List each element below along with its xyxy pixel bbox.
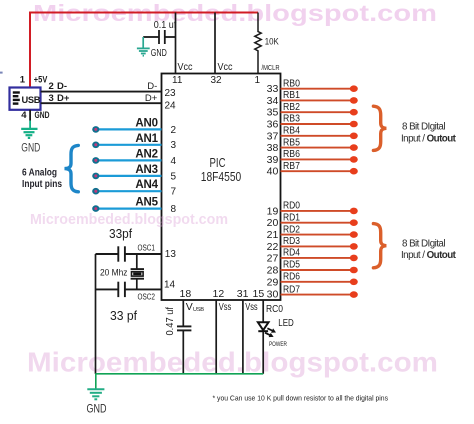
- svg-text:Vss: Vss: [219, 301, 232, 313]
- node RD2: [350, 231, 358, 238]
- ground for C1: [142, 37, 144, 48]
- svg-text:34: 34: [267, 95, 279, 107]
- svg-text:RB0: RB0: [283, 78, 300, 89]
- svg-text:2: 2: [171, 125, 177, 136]
- wire AN3: [96, 175, 162, 177]
- svg-text:Input pins: Input pins: [22, 179, 62, 190]
- wire D-: [41, 91, 162, 93]
- wire RD4: [281, 257, 354, 259]
- resistor R1 10K: [255, 13, 261, 74]
- node AN2: [92, 157, 99, 164]
- wire RB3: [281, 123, 354, 125]
- wire RD7: [281, 294, 354, 296]
- svg-text:13: 13: [165, 249, 177, 260]
- node RD7: [350, 291, 358, 298]
- ground USB: [21, 129, 37, 138]
- svg-text:19: 19: [267, 205, 279, 217]
- LED D1: [258, 322, 269, 330]
- svg-text:RD3: RD3: [283, 236, 300, 247]
- svg-text:RB7: RB7: [283, 161, 300, 172]
- svg-text:22: 22: [267, 241, 279, 253]
- wire VUSB pin 18: [182, 300, 184, 326]
- svg-text:24: 24: [165, 100, 177, 111]
- capacitor C2 33pf: [96, 246, 162, 261]
- wire D+: [41, 102, 162, 104]
- wire RB6: [281, 158, 354, 160]
- brace RD group: [373, 224, 386, 268]
- svg-text:LED: LED: [278, 318, 294, 329]
- wire RB0: [281, 88, 354, 90]
- node RB3: [350, 121, 358, 128]
- node AN3: [92, 173, 99, 180]
- svg-text:7: 7: [171, 187, 177, 198]
- svg-text:D-: D-: [147, 81, 157, 92]
- svg-text:POWER: POWER: [269, 342, 288, 348]
- svg-text:AN5: AN5: [135, 197, 158, 209]
- brace analog group: [65, 145, 79, 191]
- IC U1 PIC18F4550 body: [162, 74, 281, 301]
- svg-text:33pf: 33pf: [109, 226, 132, 241]
- svg-text:8 Bit DIgital: 8 Bit DIgital: [402, 239, 445, 250]
- svg-text:11: 11: [172, 75, 183, 86]
- svg-text:RB6: RB6: [283, 149, 300, 160]
- node RB7: [350, 168, 358, 175]
- wire left rail to ground: [95, 254, 97, 374]
- svg-text:1: 1: [254, 75, 260, 86]
- svg-text:40: 40: [267, 166, 279, 178]
- wire +5V red from USB pin1 to top rail and to resistor R1: [30, 13, 258, 89]
- svg-text:8: 8: [171, 204, 177, 215]
- svg-text:RB5: RB5: [283, 137, 300, 148]
- svg-text:PIC: PIC: [210, 155, 226, 170]
- wire RD1: [281, 222, 354, 224]
- wire RB4: [281, 135, 354, 137]
- capacitor C3 33 pf: [96, 282, 162, 297]
- wire AN0: [96, 128, 162, 130]
- svg-text:RD4: RD4: [283, 248, 300, 259]
- svg-text:1: 1: [20, 75, 26, 86]
- svg-text:AN2: AN2: [135, 148, 157, 160]
- svg-text:Vcc: Vcc: [218, 61, 233, 73]
- svg-text:38: 38: [267, 142, 279, 154]
- svg-text:29: 29: [267, 276, 279, 288]
- svg-text:37: 37: [267, 130, 279, 142]
- svg-text:Vss: Vss: [245, 301, 258, 313]
- svg-text:+5V: +5V: [34, 75, 48, 86]
- svg-text:RD6: RD6: [283, 272, 300, 283]
- node RD4: [350, 255, 358, 262]
- svg-text:33: 33: [267, 83, 279, 95]
- svg-text:D+: D+: [145, 93, 158, 104]
- svg-text:RB1: RB1: [283, 90, 300, 101]
- wire USB GND: [29, 110, 31, 121]
- wire RB5: [281, 147, 354, 149]
- node RD6: [350, 279, 358, 286]
- wire AN2: [96, 159, 162, 161]
- capacitor C4 0.47 uf: [177, 326, 191, 330]
- stray mark left edge: [0, 72, 3, 74]
- node RD0: [350, 208, 358, 215]
- wire RC0 pin 15: [262, 300, 264, 322]
- wire RB7: [281, 170, 354, 172]
- svg-text:4: 4: [171, 156, 177, 167]
- wire RD3: [281, 245, 354, 247]
- wire ground bus green: [96, 373, 264, 375]
- svg-text:GND: GND: [151, 48, 167, 59]
- svg-text:Microembeded.blogspot.com: Microembeded.blogspot.com: [27, 347, 438, 378]
- svg-text:39: 39: [267, 154, 279, 166]
- node AN1: [92, 142, 99, 149]
- capacitor C1 0.1uf: [143, 30, 175, 44]
- svg-text:20 Mhz: 20 Mhz: [100, 268, 128, 278]
- wire RD6: [281, 281, 354, 283]
- svg-text:35: 35: [267, 107, 279, 119]
- svg-text:0.1 uf: 0.1 uf: [154, 19, 177, 31]
- svg-text:20: 20: [267, 217, 279, 229]
- svg-text:10K: 10K: [265, 37, 280, 48]
- svg-text:12: 12: [213, 288, 225, 300]
- svg-text:GND: GND: [21, 143, 40, 155]
- wire Vcc pin 32: [214, 13, 216, 74]
- svg-text:15: 15: [253, 288, 265, 300]
- svg-text:18F4550: 18F4550: [201, 169, 242, 184]
- node RB6: [350, 156, 358, 163]
- wire RB2: [281, 111, 354, 113]
- node RD1: [350, 219, 358, 226]
- node RB1: [350, 97, 358, 104]
- svg-text:2: 2: [49, 81, 54, 92]
- wire AN1: [96, 144, 162, 146]
- wire Vcc pin 11: [175, 13, 177, 74]
- svg-text:18: 18: [180, 288, 192, 300]
- node RB5: [350, 144, 358, 151]
- crystal X1 20 Mhz: [131, 254, 144, 289]
- svg-text:GND: GND: [35, 110, 50, 121]
- svg-text:AN4: AN4: [135, 179, 158, 191]
- svg-text:RD2: RD2: [283, 224, 300, 235]
- wire RD0: [281, 210, 354, 212]
- svg-text:21: 21: [267, 229, 279, 241]
- svg-text:D-: D-: [57, 81, 67, 92]
- svg-text:OSC2: OSC2: [138, 292, 156, 302]
- wire RB1: [281, 99, 354, 101]
- svg-text:RB3: RB3: [283, 114, 300, 125]
- node AN0: [92, 126, 99, 133]
- svg-text:33 pf: 33 pf: [110, 308, 137, 323]
- node RD3: [350, 243, 358, 250]
- svg-text:RD1: RD1: [283, 212, 300, 223]
- wire Vss pin 12: [215, 300, 217, 374]
- node RB2: [350, 109, 358, 116]
- svg-text:31: 31: [237, 288, 249, 300]
- node AN4: [92, 188, 99, 195]
- svg-text:* you Can use 10 K pull down r: * you Can use 10 K pull down resistor to…: [213, 394, 389, 403]
- svg-text:RD0: RD0: [283, 201, 300, 212]
- svg-text:8 Bit DIgital: 8 Bit DIgital: [402, 122, 445, 133]
- svg-text:Input / Outout: Input / Outout: [401, 134, 457, 145]
- svg-text:Input / Outout: Input / Outout: [401, 250, 457, 261]
- svg-text:14: 14: [164, 280, 176, 291]
- svg-text:RD5: RD5: [283, 260, 300, 271]
- wire RD5: [281, 269, 354, 271]
- wire Vss pin 31: [242, 300, 244, 374]
- svg-text:AN0: AN0: [135, 117, 157, 129]
- svg-text:0.47 uf: 0.47 uf: [164, 307, 176, 336]
- svg-text:Vcc: Vcc: [178, 61, 193, 73]
- LED arrows: [266, 326, 277, 335]
- svg-text:AN3: AN3: [135, 164, 157, 176]
- svg-text:28: 28: [267, 265, 279, 277]
- svg-text:/MCLR: /MCLR: [262, 63, 280, 72]
- node RB4: [350, 133, 358, 140]
- svg-text:5: 5: [171, 171, 177, 182]
- svg-text:RC0: RC0: [266, 304, 283, 315]
- wire AN4: [96, 190, 162, 192]
- brace RB group: [373, 106, 386, 150]
- svg-text:RD7: RD7: [283, 284, 300, 295]
- node RB0: [350, 85, 358, 92]
- wire RD2: [281, 234, 354, 236]
- svg-text:36: 36: [267, 119, 279, 131]
- node RD5: [350, 267, 358, 274]
- svg-text:RB2: RB2: [283, 102, 300, 113]
- svg-text:30: 30: [267, 288, 279, 300]
- svg-text:USB: USB: [22, 95, 41, 105]
- svg-text:6 Analog: 6 Analog: [22, 168, 57, 179]
- svg-text:OSC1: OSC1: [138, 243, 156, 253]
- svg-text:3: 3: [171, 140, 177, 151]
- svg-text:4: 4: [21, 110, 27, 121]
- svg-text:27: 27: [267, 252, 279, 264]
- svg-text:AN1: AN1: [135, 133, 158, 145]
- wire AN5: [96, 208, 162, 210]
- svg-text:32: 32: [211, 75, 223, 86]
- svg-text:23: 23: [165, 88, 177, 99]
- svg-text:GND: GND: [87, 404, 107, 416]
- svg-text:RB4: RB4: [283, 126, 300, 137]
- node AN5: [92, 205, 99, 212]
- ground main: [95, 374, 97, 389]
- USB connector J1: [10, 88, 41, 110]
